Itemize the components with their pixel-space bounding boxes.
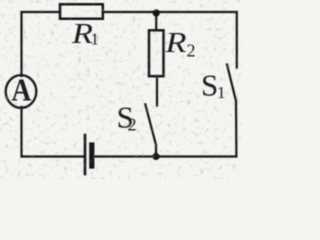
battery cell long plate bbox=[84, 135, 87, 174]
resistor R1 bbox=[60, 4, 103, 19]
wire top from R1 to right corner bbox=[104, 12, 237, 68]
switch S1 blade bbox=[227, 65, 236, 102]
wire middle branch stub below R2 bbox=[156, 76, 158, 106]
scan noise overlay bbox=[0, 0, 242, 179]
wire bottom-left segment bbox=[22, 107, 85, 157]
ammeter A1 circle bbox=[6, 75, 37, 108]
wire top-left segment bbox=[22, 12, 60, 76]
node junction bottom bbox=[152, 153, 159, 160]
battery cell short thick plate bbox=[89, 145, 94, 166]
resistor R2 bbox=[149, 30, 164, 76]
node junction top bbox=[153, 9, 160, 16]
wire middle branch to bottom node bbox=[155, 145, 157, 157]
wire right lower segment bbox=[95, 101, 237, 157]
wire middle branch upper bbox=[155, 13, 157, 30]
scan background bbox=[0, 0, 242, 179]
switch S2 blade bbox=[145, 104, 156, 145]
